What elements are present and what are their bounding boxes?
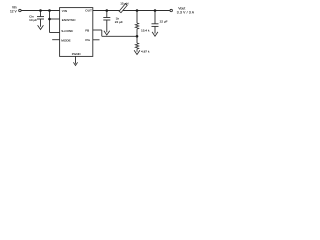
svg-text:12 V: 12 V bbox=[10, 9, 17, 13]
wire FB route bbox=[93, 30, 137, 36]
ground under R2 bbox=[134, 50, 140, 54]
ground under C2 bbox=[152, 32, 158, 36]
wire output rail bbox=[93, 10, 170, 12]
R2 value label bbox=[141, 49, 150, 53]
svg-text:22 µF: 22 µF bbox=[115, 20, 123, 24]
pin label OUT bbox=[85, 9, 92, 13]
node junction Cin bbox=[39, 9, 42, 12]
svg-text:22 µF: 22 µF bbox=[160, 19, 168, 23]
node junction Cout1 bbox=[106, 9, 109, 12]
svg-text:EN/SYNC: EN/SYNC bbox=[62, 18, 77, 22]
C2 value label bbox=[160, 19, 168, 23]
svg-text:PG: PG bbox=[85, 38, 90, 42]
svg-text:15.4 k: 15.4 k bbox=[141, 28, 150, 32]
resistor R1 15.4 k bbox=[135, 23, 138, 30]
wire PG stub bbox=[93, 39, 100, 41]
node Vin input terminal bbox=[19, 9, 21, 11]
Cout value label bbox=[115, 16, 123, 24]
R1 value label bbox=[141, 28, 150, 32]
svg-text:15 nH: 15 nH bbox=[120, 1, 128, 5]
svg-text:3.3 V / 3 A: 3.3 V / 3 A bbox=[177, 11, 195, 15]
svg-text:S-CONF: S-CONF bbox=[61, 29, 73, 33]
Cin value label bbox=[29, 15, 37, 23]
node Vout output terminal bbox=[170, 9, 172, 11]
ground under Cin bbox=[38, 25, 44, 29]
pin label EN/SYNC bbox=[62, 18, 77, 22]
IC U1 regulator module bbox=[60, 8, 93, 57]
pin label PGND bbox=[72, 52, 82, 56]
svg-text:OUT: OUT bbox=[85, 9, 92, 13]
pin label S-CONF bbox=[61, 29, 73, 33]
pin label PG bbox=[85, 38, 90, 42]
node junction Cout2 bbox=[154, 9, 157, 12]
node junction EN tie bbox=[48, 9, 51, 12]
svg-text:10 µF: 10 µF bbox=[29, 18, 37, 22]
wire divider middle bbox=[136, 30, 138, 43]
svg-text:MODE: MODE bbox=[61, 38, 70, 42]
wire EN/SYNC S-CONF tie to VIN bbox=[50, 11, 60, 33]
Vout label 3.3 V / 3 A bbox=[177, 7, 195, 15]
resistor R2 4.87 k bbox=[135, 43, 138, 52]
capacitor C2 22 uF bbox=[152, 11, 159, 34]
pin label MODE bbox=[61, 38, 70, 42]
pin label FB bbox=[85, 28, 89, 32]
wire MODE stub bbox=[52, 39, 59, 41]
svg-text:FB: FB bbox=[85, 28, 89, 32]
node junction divider bbox=[136, 9, 139, 12]
ground under Cout bbox=[104, 31, 110, 35]
Vin label 12 V bbox=[10, 5, 17, 13]
wire PGND to ground bbox=[75, 56, 77, 63]
pin label VIN bbox=[62, 9, 67, 13]
svg-text:VIN: VIN bbox=[62, 9, 67, 13]
node junction EN pin bbox=[48, 18, 51, 21]
wire input rail bbox=[21, 10, 59, 12]
wire divider top bbox=[136, 11, 138, 24]
svg-text:PGND: PGND bbox=[72, 52, 82, 56]
ferrite bead label bbox=[120, 1, 128, 5]
svg-text:4.87 k: 4.87 k bbox=[141, 49, 150, 53]
ferrite bead 15 nH bbox=[119, 4, 127, 13]
ground under PGND bbox=[73, 62, 77, 65]
capacitor Cout 3x 22 uF bbox=[103, 11, 110, 33]
capacitor Cin 10 uF bbox=[37, 11, 44, 27]
node junction FB bbox=[136, 35, 139, 38]
